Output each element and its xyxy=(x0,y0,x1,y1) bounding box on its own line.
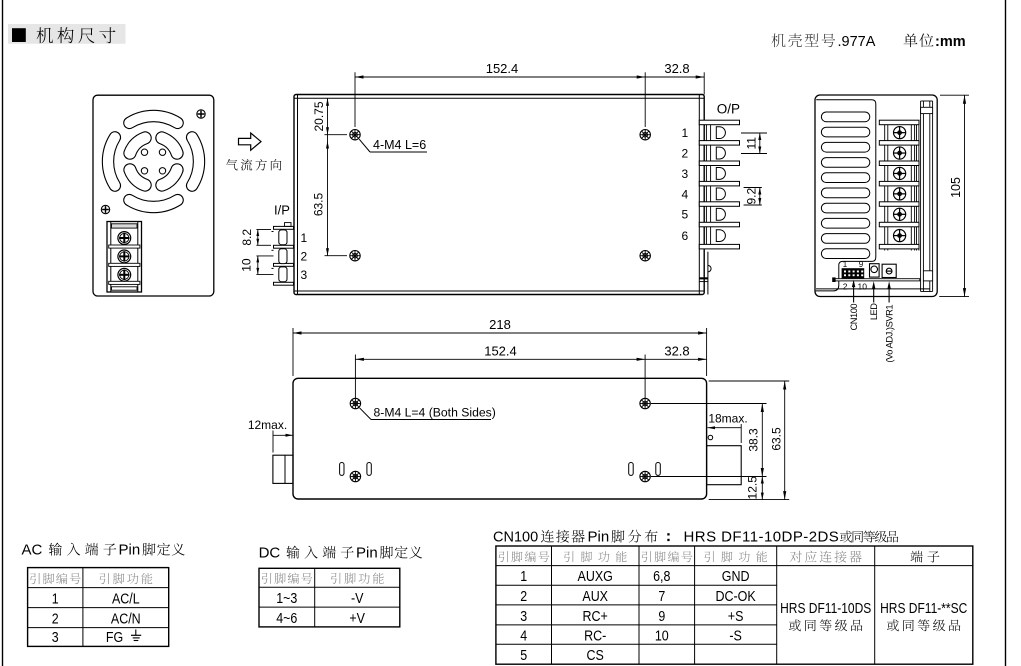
dimension 32.8 (bottom view) xyxy=(645,343,707,361)
DC output block profile (bottom view right) xyxy=(707,435,742,485)
I/P label xyxy=(274,203,290,218)
dimension 152.4 (bottom view) xyxy=(355,343,645,398)
svg-text:GND: GND xyxy=(722,568,750,585)
svg-text:6,8: 6,8 xyxy=(653,568,670,585)
dimension 11 (O/P pitch) xyxy=(741,133,767,154)
DC pin definition table xyxy=(259,568,400,627)
unit label 单位:mm xyxy=(904,33,966,50)
mounting screws (bottom view) xyxy=(350,398,650,481)
dimension 38.3 xyxy=(651,404,767,477)
svg-text:4-M4 L=6: 4-M4 L=6 xyxy=(373,138,426,152)
svg-text:3: 3 xyxy=(52,629,59,646)
table title AC 输入端子Pin脚定义 xyxy=(22,542,185,559)
svg-text:I/P: I/P xyxy=(274,203,290,218)
svg-text:4: 4 xyxy=(520,627,527,644)
page right border xyxy=(1005,0,1007,666)
svg-text:32.8: 32.8 xyxy=(664,61,689,76)
svg-text:-V: -V xyxy=(351,590,364,607)
CN100 pin table xyxy=(496,546,973,664)
svg-text:8-M4 L=4 (Both Sides): 8-M4 L=4 (Both Sides) xyxy=(374,406,496,420)
page left border xyxy=(2,0,4,666)
dimension 10 (I/P) xyxy=(240,256,274,275)
dimension 12.5 xyxy=(746,476,764,500)
mounting screws (top view) xyxy=(350,130,651,261)
svg-text:9: 9 xyxy=(859,260,864,269)
bottom view case outline xyxy=(293,378,707,499)
svg-text:LED: LED xyxy=(869,303,879,320)
svg-text:218: 218 xyxy=(489,317,511,332)
svg-text:+S: +S xyxy=(728,608,744,625)
svg-text:10: 10 xyxy=(858,282,868,292)
svg-text:12max.: 12max. xyxy=(248,418,287,432)
svg-text:2: 2 xyxy=(520,588,527,605)
section header block 机构尺寸 xyxy=(8,24,126,44)
svg-text:32.8: 32.8 xyxy=(664,343,689,358)
svg-text:11: 11 xyxy=(744,137,758,150)
AC pin definition table xyxy=(28,568,169,647)
dimension 12max. xyxy=(248,418,293,453)
I/P pin numbers xyxy=(301,231,308,282)
svg-text:RC+: RC+ xyxy=(583,608,608,625)
O/P label xyxy=(717,101,740,116)
front panel screw bottom-left xyxy=(101,205,109,213)
svg-text:(Vo ADJ.)SVR1: (Vo ADJ.)SVR1 xyxy=(885,305,895,363)
dimension 32.8 (top view) xyxy=(645,61,704,95)
svg-text:4~6: 4~6 xyxy=(276,610,297,627)
svg-text:AC/L: AC/L xyxy=(112,590,140,607)
svg-text:3: 3 xyxy=(520,608,527,625)
AC inlet profile (bottom view left) xyxy=(273,455,293,483)
chassis right flange detail (top view bottom-right) xyxy=(699,252,711,295)
svg-text:2: 2 xyxy=(52,610,59,627)
AC input connector (top view) xyxy=(272,223,294,286)
dimension 63.5 (top view left) xyxy=(312,135,347,256)
svg-text:10: 10 xyxy=(655,627,669,644)
case model label 机壳型号.977A xyxy=(772,33,876,50)
dimension 218 xyxy=(293,317,707,376)
svg-text:Pin: Pin xyxy=(356,545,378,562)
CN100 pin labels xyxy=(843,260,867,292)
svg-text:AUXG: AUXG xyxy=(578,568,613,585)
dimension 8.2 (I/P) xyxy=(240,229,271,246)
LED indicator xyxy=(870,264,880,277)
screw callout 4-M4 L=6 xyxy=(359,138,427,152)
svg-text:38.3: 38.3 xyxy=(747,428,761,452)
svg-text:CN100: CN100 xyxy=(493,530,538,546)
svg-text:20.75: 20.75 xyxy=(312,101,326,131)
svg-text:2: 2 xyxy=(843,282,848,292)
dimension 9.2 (O/P pitch) xyxy=(744,188,762,206)
SVR1 leader and label xyxy=(885,281,895,362)
AC input terminal block (front view) xyxy=(107,222,142,293)
bottom plate (side view) xyxy=(832,277,920,282)
svg-text:-S: -S xyxy=(729,627,742,644)
svg-text:152.4: 152.4 xyxy=(486,61,519,76)
svg-text:O/P: O/P xyxy=(717,101,740,116)
side view vent panel outline xyxy=(816,100,876,291)
svg-text:+V: +V xyxy=(349,610,365,627)
svg-text:AUX: AUX xyxy=(582,588,608,605)
svg-text:7: 7 xyxy=(658,588,665,605)
svg-text:105: 105 xyxy=(949,177,963,198)
svg-text:DC-OK: DC-OK xyxy=(716,588,756,605)
svg-text::mm: :mm xyxy=(935,34,966,50)
svg-text:CS: CS xyxy=(587,647,604,664)
svg-text:HRS DF11-10DP-2DS: HRS DF11-10DP-2DS xyxy=(684,529,840,546)
svg-text:6: 6 xyxy=(682,229,689,243)
svg-text:HRS DF11-**SC: HRS DF11-**SC xyxy=(880,600,967,617)
front view case outline xyxy=(93,95,214,296)
dimension 152.4 (top view) xyxy=(355,61,645,127)
dimension 63.5 (bottom view) xyxy=(709,381,790,500)
svg-text:5: 5 xyxy=(520,647,527,664)
svg-text:1~3: 1~3 xyxy=(276,590,297,607)
vent slots xyxy=(821,112,869,259)
side view mounting flange rail xyxy=(921,101,933,292)
svg-text:1: 1 xyxy=(301,231,308,245)
svg-text:8.2: 8.2 xyxy=(240,229,254,246)
dimension 18max. xyxy=(708,411,748,443)
CN100 connector (side view) xyxy=(842,268,865,278)
output terminal block (side view) xyxy=(879,120,919,250)
svg-text:RC-: RC- xyxy=(584,627,606,644)
svg-text:DC: DC xyxy=(259,545,281,562)
svg-text:18max.: 18max. xyxy=(708,411,747,425)
svg-text:9: 9 xyxy=(658,608,665,625)
O/P pin numbers xyxy=(682,126,689,243)
svg-text:1: 1 xyxy=(520,568,527,585)
svg-text:63.5: 63.5 xyxy=(312,192,326,216)
fan grille inner slots xyxy=(130,138,177,185)
svg-text:10: 10 xyxy=(240,258,254,272)
svg-text:12.5: 12.5 xyxy=(746,476,760,500)
svg-text:.977A: .977A xyxy=(838,34,876,50)
svg-text:152.4: 152.4 xyxy=(484,343,517,358)
FG ground symbol xyxy=(106,629,141,646)
svg-text:5: 5 xyxy=(682,208,689,222)
svg-text:2: 2 xyxy=(301,250,308,264)
LED leader and label xyxy=(869,281,879,320)
svg-text:4: 4 xyxy=(682,187,689,201)
svg-text:9.2: 9.2 xyxy=(744,188,758,205)
svg-text:2: 2 xyxy=(682,146,689,160)
table title DC 输入端子Pin脚定义 xyxy=(259,545,423,562)
side view inner bottom seam xyxy=(816,288,930,290)
svg-text:Pin: Pin xyxy=(588,529,610,546)
svg-text:FG: FG xyxy=(106,629,123,646)
dimension 105 (side view) xyxy=(939,95,969,296)
svg-text:AC/N: AC/N xyxy=(111,610,141,627)
svg-text:AC: AC xyxy=(22,542,43,559)
svg-text:1: 1 xyxy=(843,260,848,269)
top view case outline xyxy=(294,95,704,295)
svg-text:1: 1 xyxy=(52,590,59,607)
svg-text:3: 3 xyxy=(301,268,308,282)
fan hub holes xyxy=(141,149,165,174)
case vent slots (bottom view) xyxy=(340,463,661,476)
screw callout 8-M4 L=4 (Both Sides) xyxy=(360,406,496,420)
dimension 20.75 (top view left) xyxy=(312,98,347,134)
DC output terminal bars (top view) xyxy=(699,120,739,249)
svg-text:CN100: CN100 xyxy=(849,304,859,331)
side view case outline xyxy=(815,95,937,297)
front panel screw top-right xyxy=(197,110,205,118)
SVR1 potentiometer xyxy=(882,264,896,277)
airflow label 气流方向 xyxy=(226,159,281,171)
svg-text:1: 1 xyxy=(682,126,689,140)
svg-text:Pin: Pin xyxy=(119,542,141,559)
fan grille outer slots xyxy=(108,116,199,207)
table title CN100 connector pin distribution xyxy=(493,529,898,546)
CN100 leader and label xyxy=(849,280,859,331)
svg-text:HRS DF11-10DS: HRS DF11-10DS xyxy=(780,600,871,617)
airflow arrow xyxy=(239,133,262,150)
svg-text:3: 3 xyxy=(682,167,689,181)
svg-text:63.5: 63.5 xyxy=(770,427,784,451)
